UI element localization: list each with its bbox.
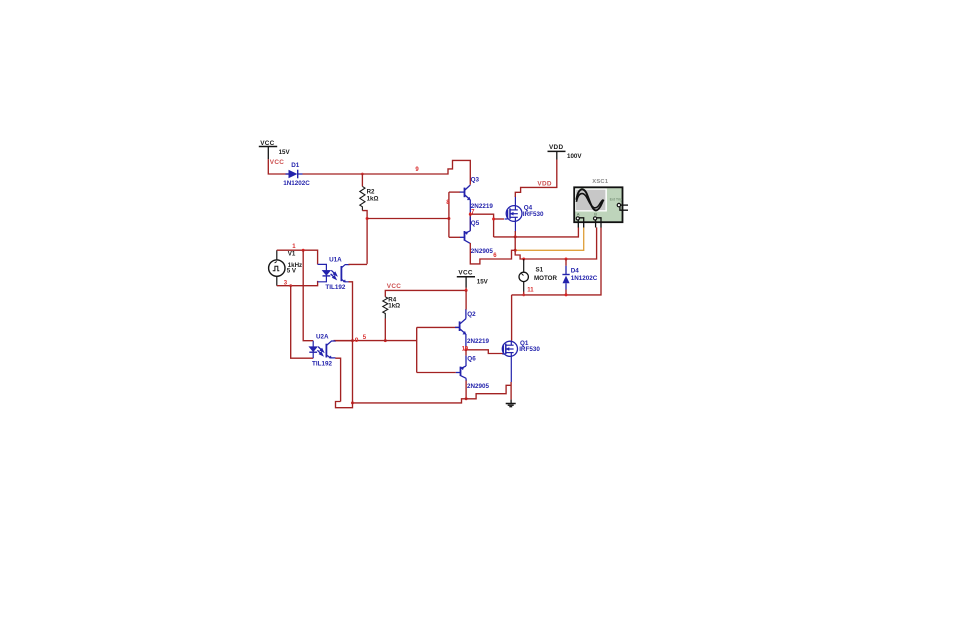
svg-text:A: A (577, 212, 580, 217)
resistor R4 (383, 297, 400, 319)
oscilloscope XSC1 (574, 179, 628, 227)
terminal A (576, 217, 579, 220)
svg-text:2N2219: 2N2219 (467, 338, 490, 345)
svg-text:5 V: 5 V (287, 267, 297, 274)
node 10 junction (466, 346, 504, 354)
svg-text:Q3: Q3 (471, 176, 480, 183)
wire V1 top rail (node 1) (277, 250, 318, 264)
transistor Q6 (456, 350, 466, 381)
wire VCC to D1 (268, 159, 288, 174)
wire node 5 horizontal and base split (334, 327, 461, 372)
wire Q4 gate (494, 218, 504, 220)
svg-text:VCC: VCC (458, 269, 472, 276)
wire Q5 collector to node 6 (470, 243, 515, 264)
svg-text:1kΩ: 1kΩ (388, 303, 400, 310)
svg-text:VDD: VDD (537, 181, 551, 188)
svg-text:U2A: U2A (316, 333, 329, 340)
MOSFET Q4 (505, 196, 523, 232)
svg-text:Q6: Q6 (467, 355, 476, 362)
svg-text:6: 6 (493, 253, 497, 259)
wire U1A emitter down to ground rail (349, 282, 353, 403)
svg-text:TIL192: TIL192 (312, 360, 332, 367)
svg-text:9: 9 (415, 167, 419, 173)
svg-text:2N2905: 2N2905 (467, 383, 490, 390)
ground (506, 400, 516, 407)
AC source V1 (269, 250, 303, 286)
wire A+ (scope A to source) (494, 227, 579, 237)
svg-text:100V: 100V (567, 153, 582, 160)
VCC supply V_top (259, 140, 291, 159)
svg-text:IRF530: IRF530 (519, 346, 540, 353)
svg-text:1: 1 (292, 244, 296, 250)
wire node1 down to U2A anode (303, 250, 313, 341)
svg-text:Q2: Q2 (467, 311, 476, 318)
wire U2A collector to node 5 (335, 340, 352, 342)
terminal Ext Trig (617, 203, 620, 206)
svg-text:TIL192: TIL192 (325, 284, 345, 291)
svg-text:IRF530: IRF530 (523, 211, 544, 218)
svg-text:15V: 15V (477, 279, 489, 286)
svg-text:2N2905: 2N2905 (471, 248, 494, 255)
optocoupler U1A (318, 264, 350, 282)
wire Q5 base (449, 236, 460, 238)
wire node 8 vertical (Q3 base to Q5 base) (448, 192, 450, 237)
node junction R2/node8 (366, 217, 369, 220)
svg-text:XSC1: XSC1 (592, 179, 609, 185)
svg-text:VDD: VDD (549, 144, 563, 151)
junction R2 top (361, 173, 364, 176)
wire R2 bottom to U1A collector (362, 211, 367, 264)
svg-text:1N1202C: 1N1202C (571, 275, 598, 282)
MOSFET Q1 (502, 341, 517, 382)
svg-text:0: 0 (355, 337, 359, 344)
VCC supply (middle) (457, 269, 489, 287)
svg-text:D4: D4 (571, 267, 580, 274)
node 0 and 5 labels (351, 339, 354, 342)
diode D4 (562, 259, 597, 295)
transistor Q3 (460, 185, 471, 213)
wire R4 bottom to node5 (384, 319, 386, 341)
wire node 8 horizontal (367, 218, 449, 220)
wire Q1 source to ground (510, 382, 512, 400)
wire motor+ rail (524, 227, 597, 259)
svg-text:1kΩ: 1kΩ (367, 195, 379, 202)
wire Q6 collector down (465, 381, 467, 399)
wire rail down to Q1 drain (511, 295, 513, 341)
svg-text:8: 8 (446, 199, 450, 206)
svg-text:Ext Trig: Ext Trig (610, 198, 623, 202)
terminal B (594, 217, 597, 220)
wire VDD to Q4 drain (515, 160, 557, 198)
svg-text:S1: S1 (536, 267, 544, 274)
wire V1 bottom rail (node 3) (277, 281, 318, 286)
node 11 (523, 292, 525, 295)
svg-text:11: 11 (527, 288, 534, 294)
wire U2A emitter down (335, 358, 340, 401)
motor S1 (519, 259, 557, 292)
svg-text:VCC: VCC (387, 283, 401, 290)
svg-text:15V: 15V (279, 149, 291, 156)
ground rail left junction (351, 401, 354, 404)
wire motor- rail / B- (512, 227, 601, 295)
svg-text:MOTOR: MOTOR (534, 275, 557, 282)
svg-text:D1: D1 (291, 162, 300, 169)
svg-text:B: B (594, 212, 597, 217)
node 7 junction (470, 212, 493, 237)
transistor Q5 (460, 214, 471, 243)
wire D1 to Q3 staircase (303, 160, 471, 184)
optocoupler U2A (309, 341, 336, 359)
svg-text:Q5: Q5 (471, 220, 480, 227)
wire Q4 source to A+ node (514, 231, 516, 237)
wire U2A emitter step (336, 402, 353, 408)
svg-text:VCC: VCC (270, 159, 284, 166)
wire VCC rail to R4 (385, 288, 466, 297)
wire A- orange (scope to motor node) (515, 227, 584, 250)
VDD supply (548, 144, 583, 160)
svg-text:1N1202C: 1N1202C (283, 180, 310, 187)
wire node3 down to U2A cathode (291, 286, 314, 359)
resistor R2 (360, 174, 379, 211)
wire Q3 base (449, 191, 460, 193)
svg-text:10: 10 (462, 346, 469, 352)
wire source jog to ground rail (353, 385, 512, 403)
wire U1A collector to R2 node (349, 263, 368, 265)
wire source node down to motor node (515, 237, 524, 259)
diode D1 (283, 162, 310, 187)
svg-text:V1: V1 (288, 251, 296, 258)
transistor Q2 (455, 309, 466, 347)
svg-text:U1A: U1A (329, 256, 342, 263)
